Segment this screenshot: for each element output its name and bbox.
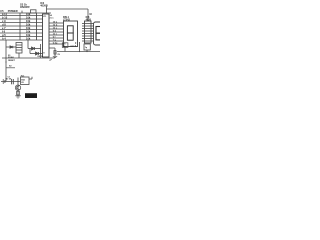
svg-text:B1 9V: B1 9V bbox=[6, 79, 12, 81]
svg-text:µF: µF bbox=[50, 60, 53, 62]
wire +V rail left bbox=[0, 12, 51, 14]
switch S2 bbox=[6, 66, 15, 68]
svg-text:POWER: POWER bbox=[8, 9, 18, 13]
ground bbox=[53, 56, 57, 57]
buzzer BZ1 box bbox=[21, 77, 30, 85]
diode D1 bbox=[28, 40, 41, 50]
wire bottom feed bbox=[1, 81, 21, 83]
node junction bbox=[5, 57, 6, 58]
wire seg d bbox=[49, 31, 64, 33]
svg-text:BZ1: BZ1 bbox=[21, 79, 26, 81]
svg-text:LT543: LT543 bbox=[63, 18, 70, 21]
display DIS2 bbox=[94, 22, 104, 45]
svg-text:4026: 4026 bbox=[86, 18, 92, 21]
resistor R6 bbox=[20, 32, 43, 34]
svg-text:PUSH: PUSH bbox=[8, 57, 14, 59]
wire stub bbox=[21, 11, 23, 13]
display DIS1 bbox=[64, 21, 78, 47]
wire R11 to bus bbox=[86, 50, 88, 52]
op-amp IC3 box bbox=[85, 21, 92, 43]
label IC2 4026 bbox=[40, 2, 48, 8]
resistor R4 bbox=[20, 25, 43, 27]
wire pin bbox=[82, 23, 94, 25]
node junction bbox=[40, 48, 41, 49]
wire row2 bbox=[0, 18, 20, 20]
battery B1 bbox=[3, 79, 5, 84]
switch S3 on rail bbox=[31, 10, 37, 13]
node junction bbox=[79, 51, 80, 52]
wire row5 bbox=[0, 29, 20, 31]
node junction bbox=[17, 81, 18, 82]
label DIS1 bbox=[63, 16, 70, 21]
svg-text:com 6: com 6 bbox=[70, 45, 77, 47]
svg-text:8: 8 bbox=[43, 53, 45, 55]
label S1 PUSH bbox=[8, 55, 14, 59]
wire +V rail right bbox=[47, 8, 89, 10]
transistor Q1 bbox=[15, 85, 20, 90]
ground bbox=[15, 96, 21, 98]
label plate bbox=[25, 93, 37, 98]
op-amp IC1 box bbox=[43, 14, 50, 57]
svg-text:12 b: 12 b bbox=[53, 25, 58, 27]
wire seg b bbox=[49, 25, 64, 27]
resistor R1 bbox=[20, 15, 43, 17]
wire down chain bbox=[17, 78, 19, 96]
wire row1 bbox=[0, 15, 20, 17]
svg-text:10k: 10k bbox=[26, 30, 31, 34]
wire pin bbox=[82, 40, 94, 42]
wire pin bbox=[82, 38, 94, 40]
wire pin bbox=[82, 30, 94, 32]
resistor R7 bbox=[20, 36, 43, 38]
wire row6 bbox=[0, 32, 20, 34]
svg-text:c 9: c 9 bbox=[2, 19, 6, 23]
wire seg g bbox=[49, 40, 64, 42]
label BZ1 bbox=[21, 79, 26, 84]
resistor R10 bbox=[54, 51, 56, 55]
svg-text:d 8: d 8 bbox=[2, 23, 6, 27]
labels R1-R8 bbox=[26, 12, 31, 40]
wire seg f bbox=[49, 37, 64, 39]
wire display common to bus bbox=[64, 47, 66, 52]
wire seg a bbox=[49, 22, 64, 24]
wire riser bbox=[46, 7, 48, 14]
buzzer LS1 bbox=[16, 43, 22, 59]
wire row4 bbox=[0, 25, 20, 27]
resistor R13 box bbox=[62, 43, 68, 48]
wire row8 bbox=[0, 39, 20, 41]
wire IC1 left lower pin bbox=[40, 44, 42, 58]
node junction bbox=[5, 61, 6, 62]
resistor block R11 bbox=[84, 44, 90, 50]
wire row3 bbox=[0, 22, 20, 24]
resistor R12 bbox=[17, 91, 20, 95]
seven segment digit 2 bbox=[96, 27, 101, 40]
diode D2 bbox=[30, 49, 42, 56]
capacitor C2 bbox=[12, 79, 14, 84]
svg-text:10k: 10k bbox=[26, 16, 31, 20]
svg-text:S2: S2 bbox=[9, 66, 12, 68]
wire seg c bbox=[49, 28, 64, 30]
svg-text:6 f: 6 f bbox=[53, 37, 56, 39]
svg-text:a 11: a 11 bbox=[2, 12, 7, 16]
decimal point bbox=[75, 42, 76, 43]
label IC3 4026 bbox=[86, 16, 92, 21]
svg-text:e 7: e 7 bbox=[2, 26, 6, 30]
svg-text:4026B: 4026B bbox=[40, 5, 48, 8]
resistor R8 bbox=[20, 39, 43, 41]
resistor R3 bbox=[20, 22, 43, 24]
wire BZ1 out bbox=[29, 77, 32, 79]
seven segment digit bbox=[67, 26, 73, 40]
svg-text:0V: 0V bbox=[58, 54, 61, 56]
node bus A bbox=[19, 13, 21, 40]
label DIS1 common pins bbox=[63, 44, 67, 48]
svg-text:ON/OFF: ON/OFF bbox=[20, 5, 30, 9]
diode D3 bbox=[10, 46, 13, 48]
svg-text:1µ: 1µ bbox=[85, 47, 88, 49]
connector J1 rows bbox=[0, 16, 20, 41]
wire row7 bbox=[0, 36, 20, 38]
resistor R5 bbox=[20, 29, 43, 31]
wire pin bbox=[82, 25, 94, 27]
svg-text:b 10: b 10 bbox=[2, 16, 8, 20]
svg-text:g 5: g 5 bbox=[2, 33, 6, 37]
wire drop to IC3 bbox=[87, 9, 89, 21]
svg-text:10k: 10k bbox=[26, 26, 31, 30]
svg-text:10k: 10k bbox=[26, 19, 31, 23]
svg-text:3 en: 3 en bbox=[50, 18, 55, 20]
wire seg dp bbox=[49, 43, 64, 45]
wire left rail down bbox=[6, 40, 16, 82]
wire ground bus right bbox=[57, 51, 100, 53]
resistor R2 bbox=[20, 18, 43, 20]
wire display to bus bbox=[79, 42, 81, 52]
labels segment pins bbox=[53, 22, 58, 45]
IC3 pins bbox=[82, 24, 94, 42]
node junction bbox=[40, 53, 41, 54]
svg-text:IC1: IC1 bbox=[43, 16, 47, 18]
resistor ladder rungs bbox=[20, 16, 43, 41]
wire seg e bbox=[49, 34, 64, 36]
node bus B bbox=[36, 13, 38, 40]
svg-text:5 dp: 5 dp bbox=[53, 43, 58, 45]
svg-text:10k: 10k bbox=[26, 37, 31, 41]
labels J1 rows bbox=[2, 12, 8, 40]
wire pin bbox=[82, 28, 94, 30]
label S3 ON/OFF bbox=[20, 2, 30, 9]
svg-text:PE 4/98: PE 4/98 bbox=[26, 95, 35, 98]
svg-text:10k: 10k bbox=[26, 23, 31, 27]
IC1 output pins to display bbox=[49, 23, 64, 44]
svg-text:6V: 6V bbox=[21, 82, 24, 84]
wire pin bbox=[82, 33, 94, 35]
svg-text:10k: 10k bbox=[26, 33, 31, 37]
wire ground bus left bbox=[2, 57, 55, 59]
svg-text:16: 16 bbox=[89, 14, 92, 16]
wire pin bbox=[82, 35, 94, 37]
svg-text:RESET: RESET bbox=[8, 60, 15, 62]
label IC1 pin14 bbox=[50, 14, 55, 19]
node junction bbox=[86, 51, 87, 52]
wire IC1 ground pin bbox=[49, 48, 55, 56]
svg-text:10k: 10k bbox=[26, 12, 31, 16]
